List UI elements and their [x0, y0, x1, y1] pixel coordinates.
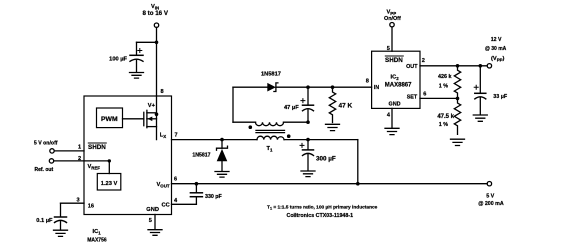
svg-text:33 µF: 33 µF	[493, 94, 508, 100]
wire 5V output rail	[172, 182, 488, 186]
pin label VREF	[88, 164, 101, 171]
svg-text:1.23 V: 1.23 V	[101, 181, 118, 187]
wire SHDN pin 1	[54, 144, 84, 151]
wire CC to 330pF	[172, 197, 197, 204]
svg-text:12 V: 12 V	[491, 37, 502, 43]
pin label SET pin 6	[407, 91, 427, 100]
svg-text:8: 8	[161, 89, 164, 95]
svg-text:IC2: IC2	[391, 75, 400, 82]
node VPP on/off terminal	[384, 9, 401, 27]
svg-text:5 V on/off: 5 V on/off	[34, 141, 58, 147]
svg-text:T1 = 1:1.5 turns ratio, 100 µH: T1 = 1:1.5 turns ratio, 100 µH primary i…	[267, 204, 378, 210]
svg-text:300 µF: 300 µF	[316, 156, 336, 163]
labels IC1 MAX756	[87, 229, 107, 243]
svg-text:100 µF: 100 µF	[109, 57, 127, 63]
svg-text:MAX756: MAX756	[87, 237, 107, 243]
ground under D2	[215, 172, 229, 178]
pin label GND IC1	[146, 207, 159, 224]
capacitor C1 100uF	[109, 42, 143, 72]
svg-text:@ 30 mA: @ 30 mA	[485, 46, 507, 52]
pin label IN pin 8	[366, 79, 380, 92]
svg-text:Ref. out: Ref. out	[35, 167, 54, 173]
capacitor 47uF	[284, 87, 313, 124]
node 12V terminal	[485, 37, 507, 68]
svg-text:SHDN: SHDN	[385, 57, 403, 64]
pin label VOUT pin 6	[157, 176, 178, 188]
wire secondary top rail	[233, 85, 372, 89]
PWM block	[97, 108, 123, 128]
svg-text:1: 1	[78, 144, 81, 150]
svg-text:3: 3	[77, 198, 80, 204]
svg-text:6: 6	[174, 176, 177, 182]
wire REF pin 2	[54, 156, 111, 174]
svg-text:47 µF: 47 µF	[284, 105, 299, 111]
svg-text:T1: T1	[267, 146, 273, 153]
svg-text:5 V: 5 V	[486, 193, 494, 199]
svg-text:4: 4	[174, 198, 178, 204]
svg-text:MAX8867: MAX8867	[385, 83, 412, 89]
svg-text:On/Off: On/Off	[384, 16, 401, 22]
svg-text:8: 8	[366, 79, 369, 85]
wire LX line	[172, 138, 258, 142]
svg-text:2: 2	[78, 156, 81, 162]
pin label SHDN IC2	[385, 56, 403, 64]
node VIN terminal	[143, 4, 169, 27]
capacitor 0.1uF	[36, 217, 66, 229]
capacitor 33uF	[474, 66, 508, 114]
svg-text:CC: CC	[162, 203, 170, 209]
svg-text:7: 7	[175, 132, 178, 138]
pin label SHDN	[88, 143, 106, 151]
svg-text:16: 16	[88, 203, 94, 209]
svg-text:@ 200 mA: @ 200 mA	[478, 201, 504, 207]
IC U1 MAX756 box	[84, 96, 172, 215]
wire VIN vertical to IC1 V+	[155, 27, 159, 96]
svg-text:4: 4	[387, 112, 391, 118]
wire SET to divider	[420, 97, 459, 101]
note T1 specification	[267, 204, 378, 218]
ground under IC2	[385, 128, 399, 134]
svg-text:LX: LX	[160, 132, 166, 139]
pin label CC pin 4	[162, 198, 179, 209]
labels IC2 MAX8867	[385, 75, 412, 89]
svg-text:GND: GND	[389, 101, 401, 107]
ground under 47K	[326, 124, 340, 130]
svg-text:426 k: 426 k	[438, 74, 452, 80]
svg-text:2: 2	[422, 58, 425, 64]
wire to capacitor C1	[137, 41, 157, 43]
wire GND pin 5	[154, 215, 156, 230]
diode D2 1N5817 catch	[192, 140, 227, 171]
resistor 47K	[329, 87, 352, 122]
ground under 33uF	[473, 115, 487, 121]
svg-text:1 %: 1 %	[439, 84, 448, 90]
wire OUT rail	[420, 64, 487, 68]
svg-text:IN: IN	[374, 85, 379, 91]
svg-text:SHDN: SHDN	[88, 144, 106, 151]
svg-text:(VPP): (VPP)	[491, 56, 505, 63]
svg-text:PWM: PWM	[101, 116, 118, 123]
pin label OUT pin 2	[406, 58, 425, 70]
resistor 426k	[438, 66, 461, 99]
resistor 47.5k	[437, 98, 460, 134]
ground under 47.5k	[451, 139, 465, 145]
svg-text:47.5 k: 47.5 k	[437, 114, 454, 120]
IC U2 MAX8867 box	[372, 51, 420, 108]
ground under 300uF	[301, 171, 315, 177]
wire PWM to gate	[123, 118, 144, 120]
svg-text:1N5817: 1N5817	[261, 72, 281, 78]
svg-text:6: 6	[423, 91, 426, 97]
capacitor 330pF	[190, 184, 222, 200]
wire primary return	[284, 138, 358, 184]
svg-text:Coiltronics CTX03-11948-1: Coiltronics CTX03-11948-1	[287, 213, 354, 219]
svg-text:IC1: IC1	[93, 229, 102, 236]
ground under IC1	[148, 230, 162, 236]
svg-text:8 to 16 V: 8 to 16 V	[143, 10, 169, 17]
pin label LX pin 7	[160, 132, 178, 139]
node Ref. out terminal	[35, 159, 54, 173]
reference block 1.23V	[97, 174, 121, 191]
svg-text:47 K: 47 K	[339, 103, 353, 110]
ground under C1	[130, 73, 144, 79]
node 5V on/off terminal	[34, 141, 58, 153]
wire GND pin 4	[391, 108, 393, 127]
diode D1 1N5817 rectifier	[261, 72, 281, 92]
svg-text:OUT: OUT	[406, 64, 418, 70]
pin label GND IC2 pin 4	[387, 101, 401, 118]
svg-text:1 %: 1 %	[439, 122, 448, 128]
svg-text:330 pF: 330 pF	[205, 194, 223, 200]
wire LBI pin 3	[61, 198, 95, 217]
svg-text:V+: V+	[148, 103, 156, 109]
ground under 0.1uF	[54, 230, 68, 236]
capacitor 300uF	[300, 140, 336, 171]
wire SHDN pin 5	[387, 27, 392, 52]
svg-text:GND: GND	[146, 207, 159, 213]
svg-text:VPP: VPP	[387, 9, 397, 16]
svg-text:SET: SET	[407, 95, 418, 101]
svg-text:1N5817: 1N5817	[192, 153, 210, 159]
svg-text:0.1 µF: 0.1 µF	[36, 218, 53, 224]
svg-text:VREF: VREF	[88, 164, 101, 171]
svg-text:VOUT: VOUT	[157, 182, 170, 189]
pin 8 V+	[148, 89, 164, 109]
svg-text:5: 5	[387, 46, 390, 52]
node 5V terminal	[478, 182, 504, 208]
transistor internal MOSFET	[144, 96, 159, 140]
transformer T1	[233, 87, 308, 153]
svg-text:5: 5	[149, 218, 152, 224]
